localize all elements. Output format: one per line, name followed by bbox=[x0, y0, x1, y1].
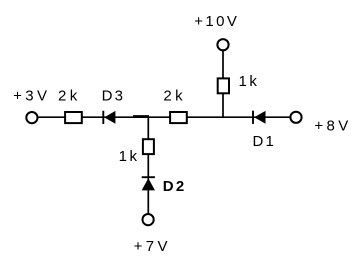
svg-text:D1: D1 bbox=[253, 133, 277, 150]
svg-text:+8V: +8V bbox=[314, 118, 351, 135]
wire: main horizontal net from +3V terminal to D1 anode bbox=[38, 116, 291, 118]
svg-text:+3V: +3V bbox=[13, 88, 50, 105]
wire: overlapped segment between D3 and middle junction (drawn doubled in source) bbox=[133, 115, 149, 117]
wire: vertical from middle junction down through R4 and D2 to +7V terminal bbox=[147, 117, 149, 213]
svg-text:D3: D3 bbox=[102, 88, 126, 105]
svg-text:+7V: +7V bbox=[134, 238, 171, 255]
svg-text:D2: D2 bbox=[163, 178, 187, 195]
terminal +10V (open circle) bbox=[217, 39, 228, 50]
diode D2 (cathode bar top, triangle pointing up) bbox=[142, 177, 155, 190]
terminal +3V (open circle) bbox=[26, 112, 37, 123]
svg-text:+10V: +10V bbox=[194, 13, 239, 30]
diode D1 (cathode bar left, triangle pointing left) bbox=[253, 111, 266, 124]
wire: vertical from +10V terminal down through R3 to main net bbox=[222, 51, 224, 118]
svg-text:2k: 2k bbox=[163, 88, 186, 105]
resistor 2k (middle, horizontal) bbox=[170, 112, 187, 123]
resistor 2k (left, horizontal) bbox=[65, 112, 82, 123]
resistor 1k (middle, vertical, to D2) bbox=[143, 139, 154, 154]
svg-text:2k: 2k bbox=[58, 88, 81, 105]
terminal +8V (open circle) bbox=[290, 112, 301, 123]
resistor 1k (top, vertical, from +10V) bbox=[218, 78, 229, 93]
terminal +7V (open circle) bbox=[143, 214, 154, 225]
svg-text:1k: 1k bbox=[238, 73, 259, 90]
diode D3 (cathode bar left, triangle pointing left) bbox=[103, 111, 115, 124]
svg-text:1k: 1k bbox=[119, 148, 140, 165]
